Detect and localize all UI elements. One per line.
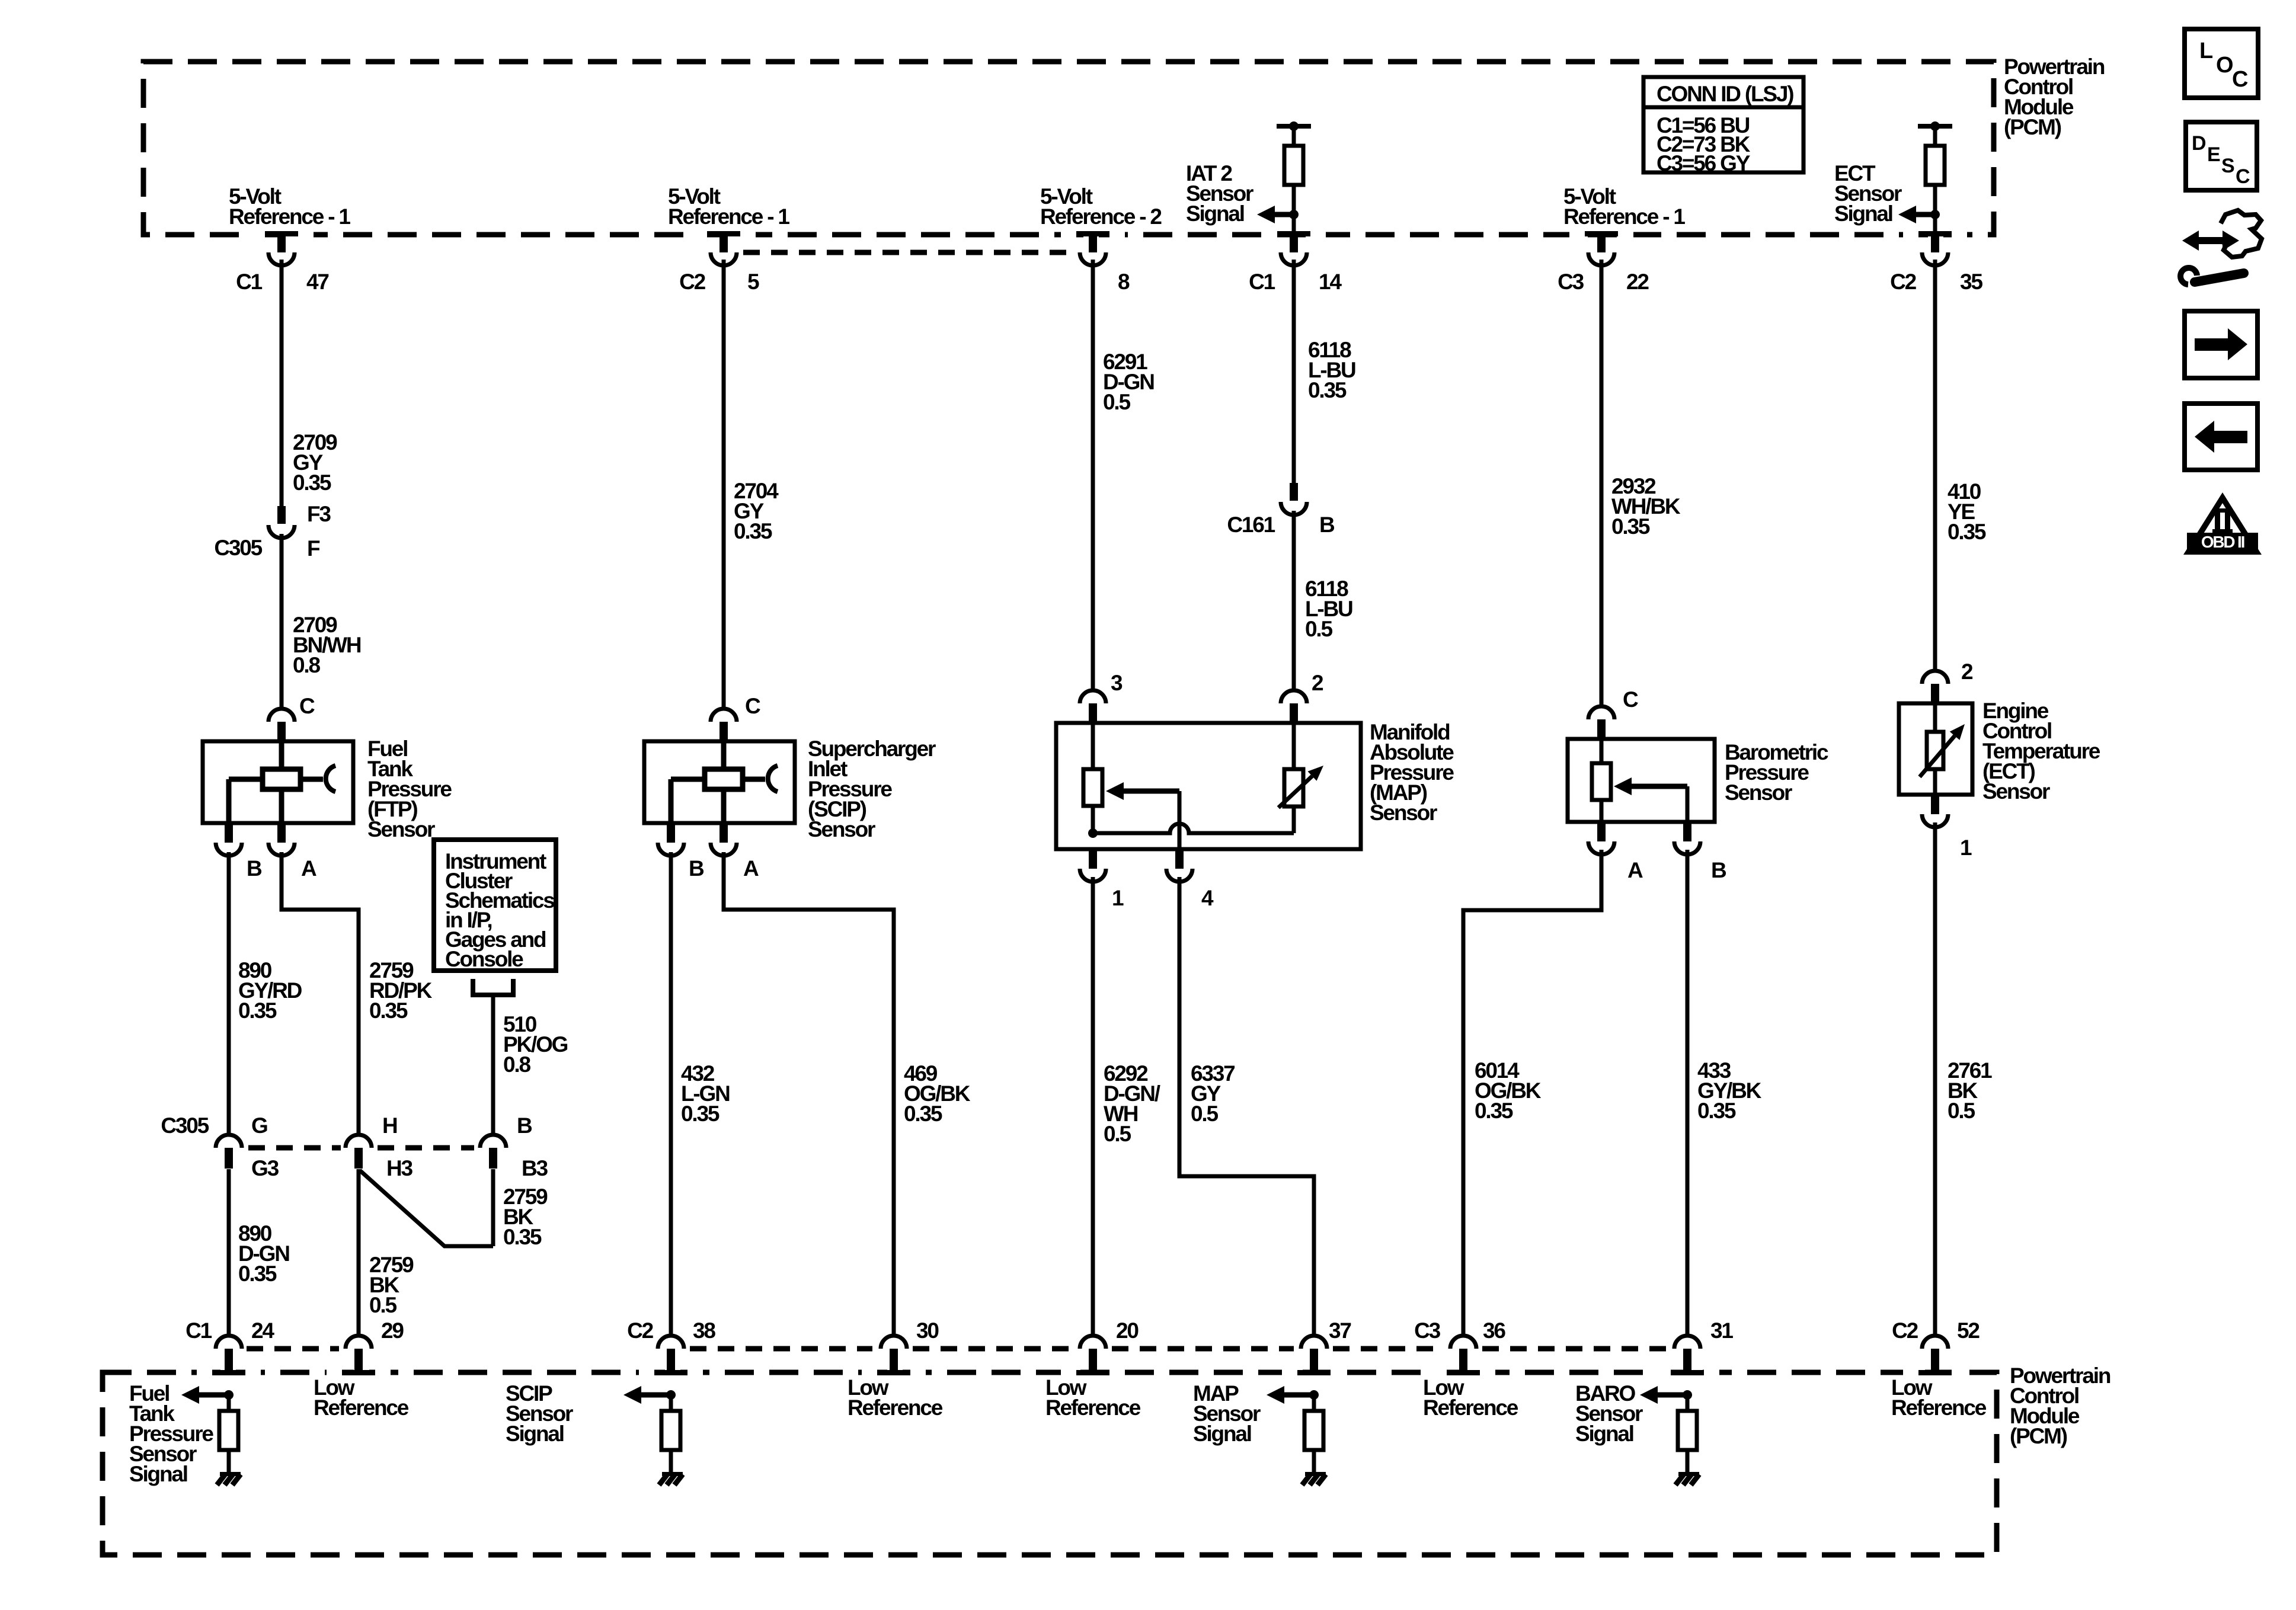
BARO sensor pin A connector (1588, 822, 1614, 854)
svg-text:F: F (307, 536, 320, 561)
svg-text:OBD II: OBD II (2201, 533, 2244, 551)
wire 890 D-GN 0.35 (C305 G3 to pin 24) (227, 1169, 231, 1334)
label: Low Reference (pin 52) (1891, 1375, 1987, 1420)
label: Powertrain Control Module (PCM) top (2004, 55, 2105, 139)
label: C (SCIP pin) (745, 694, 760, 718)
MAP sensor pin 1 connector (1080, 849, 1106, 882)
label: wire 2759 BK 0.5 (369, 1253, 414, 1317)
svg-text:0.35: 0.35 (503, 1225, 542, 1249)
IAT 2 supply rail tap (1277, 121, 1311, 131)
svg-text:C3: C3 (1414, 1318, 1441, 1343)
svg-text:D: D (2192, 132, 2206, 155)
svg-text:0.8: 0.8 (293, 653, 320, 677)
connector pin 29 at PCM bottom (327, 1336, 391, 1376)
label: Instrument Cluster Schematics in I/P, Gages and Console (445, 849, 555, 971)
svg-text:Reference - 1: Reference - 1 (229, 204, 350, 229)
resistor (ECT pull-up, in PCM) (1926, 146, 1945, 185)
label: C305 (at F) (214, 536, 262, 560)
connector C305 pin F3/F (inline) (268, 506, 295, 538)
resistor (MAP signal pull-up, in PCM) (1304, 1411, 1323, 1450)
label: C2 (pin 5) (679, 270, 706, 294)
svg-text:Signal: Signal (129, 1462, 187, 1486)
svg-text:C2: C2 (1892, 1318, 1918, 1343)
svg-text:Signal: Signal (1575, 1422, 1633, 1446)
svg-text:0.35: 0.35 (681, 1102, 720, 1126)
svg-text:B: B (689, 856, 704, 881)
svg-text:2: 2 (1312, 671, 1323, 695)
PCM (Powertrain Control Module) top box outline (143, 62, 1994, 235)
label: Fuel Tank Pressure Sensor Signal (129, 1381, 213, 1486)
svg-text:31: 31 (1710, 1318, 1733, 1343)
svg-text:C305: C305 (161, 1113, 209, 1138)
FTP sensor pin B connector (216, 823, 242, 856)
svg-text:0.35: 0.35 (1948, 520, 1986, 544)
label: 4 (MAP pin) (1201, 886, 1214, 910)
label: wire 2759 BK 0.35 (503, 1185, 548, 1249)
label: C1 (pin 14) (1249, 270, 1275, 294)
instrument cluster connector bracket (473, 979, 513, 995)
label: 20 (1116, 1318, 1139, 1343)
svg-text:2: 2 (1961, 660, 1973, 684)
resistor (IAT 2 pull-up, in PCM) (1284, 146, 1303, 185)
wire 410 YE 0.35 (pin 35 to ECT 2) (1933, 260, 1937, 670)
svg-text:Sensor: Sensor (808, 817, 875, 841)
svg-text:37: 37 (1329, 1318, 1351, 1343)
svg-text:24: 24 (251, 1318, 274, 1343)
svg-text:F3: F3 (307, 502, 331, 526)
wire 6291 D-GN 0.5 (pin 8 to MAP 3) (1091, 260, 1095, 689)
wire rail to ECT pull-up resistor (1933, 126, 1937, 146)
wire 2761 BK 0.5 (ECT 1 to pin 52) (1933, 822, 1937, 1334)
ground (FTP signal) (217, 1472, 241, 1485)
svg-text:C1: C1 (236, 270, 263, 294)
wire 6118 L-BU 0.5 (C161 to MAP 2) (1292, 511, 1296, 689)
svg-text:0.35: 0.35 (369, 998, 408, 1023)
connector pin C1-24 at PCM bottom (197, 1336, 261, 1376)
connector pin C2-38 at PCM bottom (639, 1336, 703, 1376)
svg-text:Reference: Reference (848, 1395, 943, 1420)
label: G3 (251, 1156, 279, 1180)
Manifold Absolute Pressure (MAP) sensor box (1056, 723, 1361, 849)
wire junction to MAP pull-up resistor (1312, 1395, 1316, 1411)
svg-text:(PCM): (PCM) (2004, 115, 2061, 139)
label: 2 (MAP pin) (1312, 671, 1323, 695)
svg-text:14: 14 (1319, 270, 1342, 294)
svg-text:0.35: 0.35 (1697, 1099, 1736, 1123)
BARO sensor signal node arrow (1640, 1386, 1692, 1404)
svg-text:C3: C3 (1558, 270, 1584, 294)
MAP sensor pin 2 connector (1281, 690, 1307, 723)
wire rail to IAT pull-up resistor (1292, 126, 1296, 146)
wire IAT resistor to pin 14 (1292, 185, 1296, 233)
connector pin C2-5 at PCM (692, 230, 756, 265)
label: 47 (306, 270, 328, 294)
svg-text:Sensor: Sensor (1982, 779, 2050, 804)
svg-text:Signal: Signal (1193, 1422, 1251, 1446)
svg-text:38: 38 (693, 1318, 715, 1343)
label: wire 2932 WH/BK 0.35 (1611, 474, 1681, 539)
svg-text:Signal: Signal (1186, 201, 1244, 226)
label: Low Reference (pin 29) (314, 1375, 409, 1420)
wire junction to BARO pull-up resistor (1686, 1395, 1690, 1411)
wire 2759 BK 0.5 (C305 H3 to pin 29) (357, 1169, 361, 1334)
svg-text:C: C (1623, 687, 1638, 712)
FTP sensor pin A connector (268, 823, 295, 856)
svg-text:0.35: 0.35 (904, 1102, 942, 1126)
wire 469 OG/BK 0.35 (SCIP A to pin 30) (724, 852, 894, 1334)
svg-text:0.5: 0.5 (1948, 1099, 1975, 1123)
svg-text:0.5: 0.5 (1305, 617, 1332, 641)
svg-text:Sensor: Sensor (1370, 801, 1437, 825)
svg-text:CONN ID (LSJ): CONN ID (LSJ) (1657, 82, 1793, 106)
wire 6337 GY 0.5 (MAP 4 to pin 37) (1179, 877, 1314, 1334)
label: wire 2704 GY 0.35 (734, 479, 779, 543)
label: C2 (pin 35) (1890, 270, 1917, 294)
svg-text:Reference - 1: Reference - 1 (668, 204, 789, 229)
svg-text:5: 5 (747, 270, 759, 294)
svg-text:H3: H3 (386, 1156, 413, 1180)
svg-text:O: O (2216, 53, 2233, 78)
label: B3 (522, 1156, 548, 1180)
icon: right arrow box (2185, 311, 2257, 378)
svg-text:C: C (2236, 165, 2250, 188)
SCIP sensor pin B connector (658, 823, 684, 856)
label: Low Reference (pin 20) (1045, 1375, 1141, 1420)
MAP sensor signal node arrow (1267, 1386, 1319, 1404)
svg-text:C3=56 GY: C3=56 GY (1657, 151, 1751, 175)
label: 1 (ECT pin) (1960, 836, 1972, 860)
label: B (SCIP pin) (689, 856, 704, 881)
icon: left arrow box (2185, 404, 2257, 470)
connector pin 37 at PCM bottom (1282, 1336, 1346, 1376)
wire 510 PK/OG 0.8 (cluster to C305 B) (491, 997, 495, 1134)
resistor (BARO signal pull-up, in PCM) (1678, 1411, 1697, 1450)
label: B (C161) (1319, 513, 1335, 537)
svg-text:C161: C161 (1227, 513, 1275, 537)
FTP internal transducer element (229, 741, 335, 823)
label: C161 (1227, 513, 1275, 537)
Engine Control Temperature (ECT) sensor box (1899, 703, 1972, 795)
wire 2759 RD/PK 0.35 (FTP A to C305 H) (282, 852, 359, 1134)
svg-text:35: 35 (1960, 270, 1982, 294)
label: H3 (386, 1156, 413, 1180)
PCM (Powertrain Control Module) bottom box outline (103, 1372, 1997, 1555)
label: C1 (pin 47) (236, 270, 263, 294)
FTP sensor pin C connector (268, 709, 295, 741)
label: B (C305) (517, 1113, 532, 1138)
svg-text:29: 29 (381, 1318, 404, 1343)
label: wire 6292 D-GN/WH 0.5 (1104, 1061, 1160, 1146)
label: 29 (381, 1318, 404, 1343)
label: 3 (MAP pin) (1111, 671, 1123, 695)
label: 36 (1483, 1318, 1505, 1343)
SCIP sensor pin A connector (711, 823, 737, 856)
svg-text:B: B (517, 1113, 532, 1138)
label: BARO Sensor Signal (1575, 1381, 1643, 1446)
label: 37 (1329, 1318, 1351, 1343)
ECT sensor pin 2 connector (1922, 671, 1948, 703)
label: wire 890 D-GN 0.35 (238, 1221, 289, 1286)
BARO sensor pin B connector (1674, 822, 1700, 854)
connector pin 31 at PCM bottom (1655, 1336, 1719, 1376)
resistor (FTP signal pull-up, in PCM) (219, 1411, 238, 1450)
SCIP sensor signal node arrow (623, 1386, 676, 1404)
MAP potentiometer wiper arrow (1106, 782, 1179, 849)
connector C305 pin H (346, 1135, 372, 1169)
connector pin C3-36 at PCM bottom (1431, 1336, 1495, 1376)
label: 38 (693, 1318, 715, 1343)
svg-text:Sensor: Sensor (1725, 780, 1792, 805)
svg-text:47: 47 (306, 270, 328, 294)
svg-text:C: C (299, 694, 315, 718)
CONN ID (LSJ) table box (1643, 77, 1803, 172)
svg-text:B: B (247, 856, 262, 881)
BARO sensor pin C connector (1588, 706, 1614, 739)
wire resistor to ground (MAP) (1312, 1450, 1316, 1473)
label: wire 2761 BK 0.5 (1948, 1058, 1992, 1123)
wire resistor to ground (SCIP) (669, 1450, 673, 1473)
label: wire 410 YE 0.35 (1948, 479, 1986, 544)
svg-text:4: 4 (1201, 886, 1214, 910)
wire resistor to ground (FTP) (227, 1450, 231, 1473)
label: ECT Sensor Signal (1834, 161, 1902, 226)
svg-text:G: G (251, 1113, 267, 1138)
svg-text:Console: Console (445, 947, 523, 971)
ground (MAP signal) (1302, 1472, 1326, 1485)
label: C2 (pin 52) (1892, 1318, 1918, 1343)
label: Low Reference (pin 30) (848, 1375, 943, 1420)
label: C2=73 BK (1657, 132, 1751, 156)
label: wire 6291 D-GN 0.5 (1103, 350, 1154, 414)
svg-text:Reference - 2: Reference - 2 (1040, 204, 1162, 229)
wire 2932 WH/BK 0.35 (pin 22 to BARO C) (1600, 260, 1604, 705)
svg-text:0.35: 0.35 (734, 519, 772, 543)
label: F (307, 536, 320, 561)
BARO potentiometer wiper arrow (1614, 777, 1687, 822)
svg-text:0.35: 0.35 (1475, 1099, 1513, 1123)
svg-text:30: 30 (916, 1318, 939, 1343)
svg-text:H: H (382, 1113, 397, 1138)
label: G (251, 1113, 267, 1138)
svg-text:1: 1 (1112, 886, 1124, 910)
resistor (SCIP signal pull-up, in PCM) (661, 1411, 680, 1450)
wire ECT resistor to pin 35 (1933, 185, 1937, 233)
svg-text:0.5: 0.5 (1191, 1102, 1218, 1126)
label: 8 (1118, 270, 1130, 294)
wire resistor to ground (BARO) (1686, 1450, 1690, 1473)
label: wire 6014 OG/BK 0.35 (1475, 1058, 1542, 1123)
ground (BARO signal) (1675, 1472, 1699, 1485)
ECT supply rail tap (1918, 121, 1952, 131)
bottom row connector line 38-31 (dotted) (690, 1346, 1667, 1352)
svg-text:1: 1 (1960, 836, 1972, 860)
label: wire 510 PK/OG 0.8 (503, 1012, 568, 1077)
wire junction to FTP pull-up resistor (227, 1395, 231, 1411)
connector pin C2-52 at PCM bottom (1903, 1336, 1967, 1376)
svg-text:Signal: Signal (1834, 201, 1892, 226)
wire 2704 GY 0.35 (pin 5 to SCIP C) (722, 260, 726, 708)
wire 6118 L-BU 0.35 (pin 14 to C161 B) (1292, 260, 1296, 483)
svg-text:0.35: 0.35 (238, 1262, 277, 1286)
BARO internal potentiometer (1592, 739, 1611, 822)
label: Barometric Pressure Sensor (1725, 740, 1828, 805)
ECT internal thermistor (1920, 703, 1965, 795)
label: wire 432 L-GN 0.35 (681, 1061, 730, 1126)
Barometric Pressure sensor box (1568, 739, 1715, 822)
wire 6014 OG/BK 0.35 (BARO A to pin 36) (1463, 850, 1601, 1334)
label: SCIP Sensor Signal (506, 1381, 573, 1446)
svg-text:0.5: 0.5 (1103, 390, 1130, 414)
label: C3 (pin 22) (1558, 270, 1584, 294)
svg-text:G3: G3 (251, 1156, 279, 1180)
label: wire 2759 RD/PK 0.35 (369, 958, 433, 1023)
svg-text:A: A (301, 856, 316, 881)
wire junction to SCIP pull-up resistor (669, 1395, 673, 1411)
connector pin 30 at PCM bottom (862, 1336, 926, 1376)
label: wire 890 GY/RD 0.35 (238, 958, 302, 1023)
connector pin C2-35 at PCM (1903, 230, 1967, 265)
connector pin C3-22 at PCM (1569, 230, 1633, 265)
label: 31 (1710, 1318, 1733, 1343)
label: C1=56 BU (1657, 113, 1750, 137)
label: C1 (pin 24) (186, 1318, 212, 1343)
icon: DESC box (2186, 122, 2257, 190)
wire 6292 D-GN/WH 0.5 (MAP 1 to pin 20) (1091, 877, 1095, 1334)
label: wire 6118 L-BU 0.35 (1308, 338, 1355, 402)
svg-text:36: 36 (1483, 1318, 1505, 1343)
svg-text:Reference - 1: Reference - 1 (1563, 204, 1685, 229)
label: 30 (916, 1318, 939, 1343)
svg-text:A: A (743, 856, 759, 881)
Instrument Cluster schematic reference box (434, 840, 556, 971)
connector pin 20 at PCM bottom (1061, 1336, 1125, 1376)
svg-text:Reference: Reference (1045, 1395, 1141, 1420)
MAP internal low-ref bus with wire hop (1093, 824, 1294, 833)
svg-text:C1: C1 (1249, 270, 1275, 294)
connector pin C1-14 at PCM (1262, 230, 1326, 265)
svg-text:0.35: 0.35 (293, 470, 331, 495)
label: CONN ID (LSJ) (1657, 82, 1793, 106)
label: wire 6337 GY 0.5 (1191, 1061, 1235, 1126)
label: 5-Volt Reference - 2 (1040, 184, 1162, 229)
label: Fuel Tank Pressure (FTP) Sensor (367, 737, 452, 841)
svg-text:0.35: 0.35 (238, 998, 277, 1023)
label: wire 2709 GY 0.35 (293, 430, 337, 495)
label: A (FTP pin) (301, 856, 316, 881)
icon: schematic reference arrows and wrench (2180, 210, 2262, 284)
label: C3=56 GY (1657, 151, 1751, 175)
icon: LOC box (2185, 29, 2258, 98)
label: 1 (MAP pin) (1112, 886, 1124, 910)
label: 24 (251, 1318, 274, 1343)
label: C305 (row) (161, 1113, 209, 1138)
svg-text:C2: C2 (1890, 270, 1917, 294)
svg-text:52: 52 (1957, 1318, 1980, 1343)
label: F3 (307, 502, 331, 526)
label: 5-Volt Reference - 1 (BARO) (1563, 184, 1685, 229)
wire 2709 GY 0.35 (pin 47 to C305 F3) (280, 260, 284, 506)
MAP internal variable resistor (transducer) (1278, 723, 1323, 833)
ground (SCIP signal) (659, 1472, 683, 1485)
svg-text:A: A (1627, 858, 1643, 882)
label: B (BARO pin) (1711, 858, 1726, 882)
connector C161 pin B (inline) (1281, 483, 1307, 515)
svg-text:0.8: 0.8 (503, 1052, 530, 1077)
svg-text:Signal: Signal (506, 1422, 564, 1446)
svg-text:22: 22 (1626, 270, 1649, 294)
label: B (FTP pin) (247, 856, 262, 881)
label: Supercharger Inlet Pressure (SCIP) Sensor (808, 737, 936, 841)
SCIP sensor pin C connector (711, 709, 737, 741)
svg-text:S: S (2221, 155, 2234, 177)
svg-text:0.35: 0.35 (1308, 378, 1347, 402)
label: C2 (pin 38) (627, 1318, 654, 1343)
label: MAP Sensor Signal (1193, 1381, 1261, 1446)
svg-text:20: 20 (1116, 1318, 1139, 1343)
label: H (382, 1113, 397, 1138)
IAT 2 sensor signal node arrow (1257, 206, 1299, 223)
label: 14 (1319, 270, 1342, 294)
svg-text:Reference: Reference (1891, 1395, 1987, 1420)
label: wire 469 OG/BK 0.35 (904, 1061, 971, 1126)
MAP sensor pin 4 connector (1166, 849, 1192, 882)
svg-text:B: B (1319, 513, 1335, 537)
svg-text:C1: C1 (186, 1318, 212, 1343)
label: Engine Control Temperature (ECT) Sensor (1982, 699, 2100, 804)
svg-text:0.5: 0.5 (1104, 1122, 1131, 1146)
svg-text:C: C (745, 694, 760, 718)
connector pin 8 at PCM (1061, 230, 1125, 265)
MAP internal junction (1088, 828, 1098, 838)
label: 5 (747, 270, 759, 294)
label: 22 (1626, 270, 1649, 294)
svg-text:3: 3 (1111, 671, 1123, 695)
label: 5-Volt Reference - 1 (SCIP) (668, 184, 789, 229)
wire 433 GY/BK 0.35 (BARO B to pin 31) (1686, 850, 1690, 1334)
svg-text:(PCM): (PCM) (2010, 1424, 2067, 1448)
connector C305 pin B (480, 1135, 506, 1169)
Supercharger Inlet Pressure (SCIP) sensor box (644, 741, 795, 823)
SCIP internal transducer element (671, 741, 778, 823)
FTP sensor signal node arrow (181, 1386, 234, 1404)
wire 2709 BN/WH 0.8 (C305 F to FTP C) (280, 534, 284, 708)
svg-text:B3: B3 (522, 1156, 548, 1180)
svg-text:B: B (1711, 858, 1726, 882)
svg-text:0.5: 0.5 (369, 1293, 396, 1317)
svg-text:L: L (2199, 39, 2213, 63)
ECT sensor pin 1 connector (1922, 795, 1948, 827)
label: A (BARO pin) (1627, 858, 1643, 882)
svg-text:Reference: Reference (314, 1395, 409, 1420)
wire 890 GY/RD 0.35 (FTP B to C305 G) (227, 852, 231, 1134)
label: Powertrain Control Module (PCM) bottom (2010, 1363, 2110, 1448)
top row connector line 5-8 (dotted) (743, 250, 1073, 255)
svg-text:Sensor: Sensor (367, 817, 435, 841)
label: C3 (pin 36) (1414, 1318, 1441, 1343)
MAP sensor pin 3 connector (1080, 690, 1106, 723)
label: 5-Volt Reference - 1 (FTP) (229, 184, 350, 229)
label: Low Reference (pin 36) (1423, 1375, 1518, 1420)
label: A (SCIP pin) (743, 856, 759, 881)
svg-text:8: 8 (1118, 270, 1130, 294)
svg-text:E: E (2207, 143, 2220, 166)
svg-text:C2: C2 (627, 1318, 654, 1343)
label: 52 (1957, 1318, 1980, 1343)
svg-text:C305: C305 (214, 536, 262, 560)
label: IAT 2 Sensor Signal (1186, 161, 1253, 226)
label: Manifold Absolute Pressure (MAP) Sensor (1370, 720, 1454, 825)
Fuel Tank Pressure (FTP) sensor box (203, 741, 353, 823)
